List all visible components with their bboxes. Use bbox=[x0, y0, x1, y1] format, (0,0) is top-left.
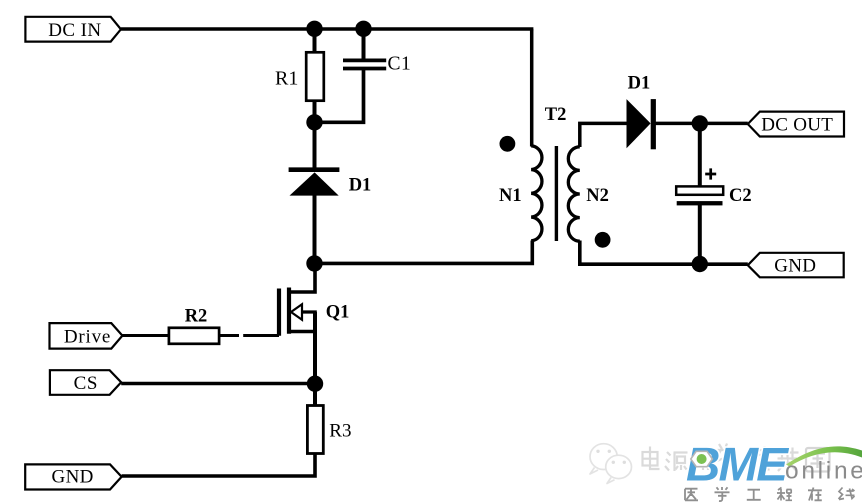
port flag CS bbox=[50, 370, 121, 395]
node C junction R1 C1 bottom bbox=[306, 114, 322, 130]
svg-text:C2: C2 bbox=[729, 186, 752, 206]
node G junction C2 ground bbox=[692, 256, 708, 272]
watermark char dian bbox=[643, 447, 660, 470]
transformer T2 core bbox=[555, 146, 558, 241]
svg-text:N2: N2 bbox=[586, 186, 609, 206]
watermark char cheng bbox=[777, 488, 792, 501]
resistor R1 bbox=[306, 52, 324, 100]
svg-text:GND: GND bbox=[774, 255, 816, 276]
svg-text:R1: R1 bbox=[275, 67, 298, 89]
watermark char yi bbox=[685, 489, 698, 501]
transformer T2 secondary winding N2 bbox=[568, 147, 580, 241]
port flag GND bottom left bbox=[25, 464, 121, 489]
diode D1 primary clamp bbox=[289, 170, 340, 196]
watermark char fa bbox=[714, 444, 734, 463]
svg-text:T2: T2 bbox=[545, 105, 567, 125]
wire R1 bottom bbox=[313, 100, 317, 124]
wire CS to node E bbox=[121, 382, 317, 386]
svg-text:Drive: Drive bbox=[64, 326, 111, 347]
wire N2 bottom to GND flag bbox=[580, 241, 748, 265]
watermark char yuan bbox=[665, 452, 688, 471]
wire C1 top bbox=[362, 29, 366, 60]
svg-text:D1: D1 bbox=[628, 74, 651, 94]
capacitor C1 bbox=[343, 60, 386, 68]
svg-text:GND: GND bbox=[52, 467, 94, 488]
wire R3 bottom to GND rail bbox=[122, 454, 315, 477]
wire node D to N1 bottom bbox=[315, 241, 533, 264]
watermark char gong bbox=[747, 490, 761, 500]
svg-text:N1: N1 bbox=[499, 186, 522, 206]
wire C1 bottom to node C bbox=[313, 69, 364, 122]
node D junction drain clamp primary bbox=[306, 255, 322, 271]
watermark char yan bbox=[691, 453, 711, 471]
node B junction C1 top bbox=[355, 21, 371, 37]
svg-text:CS: CS bbox=[74, 373, 98, 394]
port flag GND right bbox=[748, 253, 844, 277]
watermark hexagon nut with green dot bbox=[691, 451, 713, 466]
resistor R2 bbox=[169, 328, 219, 344]
watermark char quan bbox=[806, 448, 830, 472]
capacitor C2 electrolytic bbox=[676, 168, 723, 205]
node A junction R1 top bbox=[306, 21, 322, 37]
wire node F to C2 top bbox=[698, 123, 702, 187]
phase dot N2 bbox=[595, 232, 611, 248]
transistor Q1 MOSFET bbox=[279, 288, 317, 336]
svg-text:DC OUT: DC OUT bbox=[761, 115, 833, 136]
wire Drive to R2 bbox=[122, 334, 169, 337]
wire node E to R3 bbox=[313, 384, 317, 407]
port flag Drive bbox=[50, 323, 123, 349]
watermark char jing bbox=[745, 446, 770, 470]
watermark group bottom right bbox=[590, 439, 862, 502]
wire diode cathode to DC OUT bbox=[655, 122, 748, 126]
watermark green swoosh bbox=[786, 446, 862, 466]
diode D1 secondary rectifier bbox=[627, 99, 656, 149]
port flag DC OUT bbox=[748, 112, 844, 137]
svg-text:R3: R3 bbox=[329, 421, 351, 442]
svg-text:online: online bbox=[785, 458, 862, 485]
wire C2 bottom to node G bbox=[698, 205, 702, 265]
wire N2 top to diode anode bbox=[580, 123, 628, 147]
port flag DC IN bbox=[25, 17, 121, 42]
svg-text:Q1: Q1 bbox=[326, 303, 350, 323]
transformer T2 primary winding N1 bbox=[531, 146, 542, 241]
wire R2 to gate segment 1 bbox=[220, 334, 240, 337]
resistor R3 bbox=[307, 406, 323, 454]
wire R1 top bbox=[313, 29, 317, 54]
watermark char zai bbox=[808, 488, 822, 501]
wire node C to D1 cathode bar bbox=[313, 122, 317, 168]
wire transformer primary top vertical bbox=[530, 29, 534, 147]
svg-text:DC IN: DC IN bbox=[48, 20, 101, 41]
wire Q1 source to node E bbox=[313, 312, 317, 384]
watermark char ying bbox=[777, 448, 799, 472]
phase dot N1 bbox=[500, 136, 516, 152]
wire D1 anode to node D bbox=[313, 195, 317, 264]
svg-text:C1: C1 bbox=[388, 54, 412, 75]
svg-text:R2: R2 bbox=[185, 306, 208, 326]
wire top rail from DC IN to transformer bbox=[121, 27, 534, 30]
wire R2 to gate segment 2 bbox=[243, 334, 279, 337]
node E junction source CS R3 bbox=[307, 376, 323, 392]
watermark wechat icon bbox=[590, 444, 631, 484]
node F junction rectifier output bbox=[692, 115, 708, 131]
watermark char xian bbox=[839, 488, 855, 500]
wire Q1 drain vertical bbox=[287, 263, 315, 292]
watermark char xue bbox=[715, 487, 730, 501]
svg-text:D1: D1 bbox=[349, 175, 372, 195]
